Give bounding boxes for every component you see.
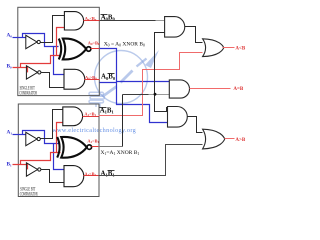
junction X1 node dot: [154, 93, 157, 96]
wire A0notB0 stub (blue): [100, 82, 117, 84]
wire B0 input (red): [13, 28, 65, 73]
or gate OR2 (A>B): [203, 129, 225, 149]
wire AND2R output A=B (red): [190, 88, 231, 90]
wire OR1 output (red): [223, 47, 235, 49]
wire B1 input (red): [13, 123, 63, 170]
watermark arrow: [103, 50, 160, 97]
svg-text:A=B: A=B: [233, 87, 243, 92]
or gate OR1 (A<B): [203, 39, 224, 57]
and gate AND2 (A0>B0): [64, 69, 85, 89]
watermark logo circle: [95, 51, 148, 104]
inverter NOT4 (B1): [26, 163, 41, 176]
wire B1 bypass over NOT4: [21, 153, 61, 165]
wire X1 vertical distribution: [155, 33, 168, 112]
inverter NOT3 (A1): [26, 132, 41, 145]
wire notA1B1 (red) long run up to OR1: [99, 53, 203, 116]
single bit comparator box 1: [18, 7, 100, 95]
and gate AND1 (A0<B0): [64, 12, 83, 30]
xnor gate XNOR1 (A0=B0): [59, 39, 91, 60]
svg-text:www.electricaltechnology.org: www.electricaltechnology.org: [52, 127, 136, 134]
wire A1 branch down to AND4: [54, 144, 65, 170]
wire AND3 output (red): [83, 116, 99, 118]
wire A1 input (blue): [13, 131, 65, 170]
wire notA0B0 run to AND1R (gray): [100, 20, 156, 22]
and gate AND4 (A1>B1): [64, 166, 84, 187]
wire NOT1 out to AND1 top input: [41, 16, 65, 43]
wire AND1R out to OR1: [185, 27, 203, 43]
inverter NOT2 (B0): [26, 66, 41, 79]
wire AND3R out to OR2: [188, 117, 203, 133]
wire AND1 output (red): [84, 20, 100, 22]
wire OR2 output (red): [225, 138, 235, 140]
single bit comparator box 2: [18, 104, 99, 197]
svg-text:A0>B0: A0>B0: [85, 75, 97, 81]
svg-text:B1: B1: [7, 162, 13, 168]
wire B0 rise to AND1: [57, 28, 65, 56]
wire A1notB1 run to OR2: [99, 145, 203, 176]
svg-text:A1: A1: [7, 130, 13, 136]
svg-text:A>B: A>B: [235, 138, 245, 143]
wire A0 input (blue): [13, 34, 65, 75]
svg-text:COMPARATOR: COMPARATOR: [20, 192, 38, 197]
wire XNOR2 output (red): [92, 146, 99, 148]
svg-text:A0<B0: A0<B0: [85, 16, 97, 22]
wire A1 bypass over NOT3: [23, 131, 59, 144]
watermark CFL bulb: [89, 92, 105, 107]
svg-text:X0 = A0 XNOR B0: X0 = A0 XNOR B0: [104, 42, 145, 48]
wire XNOR1 output (red): [91, 48, 100, 50]
svg-text:COMPARATOR: COMPARATOR: [19, 92, 37, 97]
wire AND2 output (red): [85, 79, 100, 81]
svg-text:A0: A0: [7, 33, 13, 39]
and gate AND3R (bottom right): [168, 107, 188, 128]
wire X0 (blue) from box1 to AND2R and down to AND3R: [100, 49, 170, 123]
svg-text:B0: B0: [7, 64, 13, 70]
inverter NOT1 (A0): [26, 35, 41, 48]
and gate AND3 (A1<B1): [63, 107, 83, 126]
xnor gate XNOR2 (A1=B1): [57, 137, 91, 158]
wire AND4 output (red): [84, 175, 99, 177]
wire B1 rise to AND3: [57, 123, 63, 153]
svg-text:X1=A1 XNOR B1: X1=A1 XNOR B1: [101, 150, 140, 156]
wire B0 bypass over NOT2: [21, 56, 61, 68]
wire X1 from box2 up riser: [99, 146, 123, 148]
wire X1 feed to AND2R (gray): [123, 94, 149, 96]
and gate AND1R (top right): [165, 17, 185, 37]
svg-text:A<B: A<B: [235, 46, 245, 51]
wire A0 branch down to AND2: [54, 47, 65, 75]
svg-text:A1<B1: A1<B1: [84, 111, 96, 117]
wire NOT3 out to AND3 top input: [41, 110, 63, 139]
svg-text:A1=B1: A1=B1: [87, 138, 99, 144]
svg-text:A0=B0: A0=B0: [88, 40, 100, 46]
wire A0 bypass over NOT1: [23, 34, 59, 47]
wire NOT4 out to AND4 bottom input: [41, 170, 65, 183]
svg-text:A1>B1: A1>B1: [84, 171, 96, 177]
and gate AND2R (A=B): [169, 80, 189, 98]
wire NOT2 out to AND2 bottom input: [41, 73, 65, 88]
